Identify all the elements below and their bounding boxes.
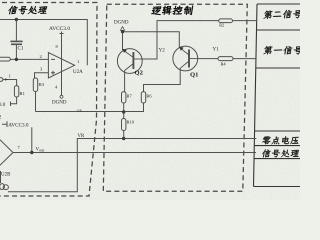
dashed box: logic-control block border (middle)	[103, 4, 247, 191]
connector: input signal (left edge)	[0, 78, 3, 82]
wire: Q2 base up and right to second-signal connector	[142, 21, 219, 59]
resistor R7	[122, 92, 126, 103]
wire: Q1 base to R4	[197, 58, 218, 60]
wire: U2A pin3 input	[35, 73, 49, 78]
ground DGND (under U2A)	[60, 95, 63, 98]
wire: Q2 collector down	[124, 71, 126, 92]
label: 第二信号 (right box row 1)	[263, 10, 272, 19]
power label AVCC3.0 (mid, at U2B)	[2, 121, 7, 127]
label: 信号处理 (right box row 4)	[262, 149, 271, 157]
node: junction dot (R10 to VR wire)	[122, 137, 125, 140]
resistor R6	[141, 92, 145, 103]
wire: to U2A pin 2	[10, 58, 48, 60]
label: 第一信号 (right box row 2)	[263, 46, 272, 55]
wire: R4 to right box (first signal row)	[233, 58, 256, 60]
wire + resistor R10	[123, 112, 125, 139]
wire: top feedback rail	[0, 20, 87, 66]
wire: DGND to Q2 emitter and Q1 emitter	[123, 30, 180, 50]
label: 信号处理 (left box title)	[8, 6, 19, 14]
wire: AVCC3.0 down to Vout node	[31, 127, 33, 152]
MCU box (right, solid)	[254, 4, 301, 187]
transistor Q1	[173, 46, 198, 71]
resistor R3	[33, 78, 37, 92]
node: junction dot at DGND branch	[121, 30, 124, 33]
power port symbol + pin8 wire through U2A	[60, 32, 64, 96]
wire: R3 bottom to divider rail	[35, 92, 37, 112]
resistor R1	[14, 86, 18, 97]
capacitor C1	[10, 20, 22, 60]
node: junction dot on mid rail	[122, 110, 125, 113]
resistor (horizontal, at left edge, input of U2A pin2)	[0, 57, 10, 61]
wire: Vout to right box (signal processing row)	[13, 152, 256, 154]
label: 逻辑控制 (middle box title)	[151, 7, 162, 15]
op-amp U2A	[48, 53, 74, 78]
transistor Q2	[117, 49, 142, 74]
ground symbol (bottom left, cut)	[0, 171, 2, 183]
op-amp U2B (cut at left edge)	[0, 135, 13, 170]
wire: VR net from ground area up and right	[8, 139, 256, 192]
wire: connector to right box	[233, 20, 257, 22]
node: junction dot on Vout	[30, 151, 33, 154]
label: 零点电压 (right box row 3)	[262, 136, 272, 144]
node: junction dot (C1 / pin2)	[15, 58, 18, 61]
connector: second signal	[219, 19, 233, 23]
resistor R4	[218, 57, 233, 61]
node: junction dot on top rail	[15, 18, 18, 21]
wire + power label AVCC3.0 (cut at left edge)	[11, 97, 17, 106]
wire: Q1 collector down/left to R6	[144, 68, 181, 91]
wire: divider mid rail (R3 to R7/R6 bottoms)	[36, 111, 145, 113]
wires: R7/R6 bottoms to mid rail	[124, 103, 144, 112]
dashed box: signal-processing block border (left)	[0, 3, 97, 197]
